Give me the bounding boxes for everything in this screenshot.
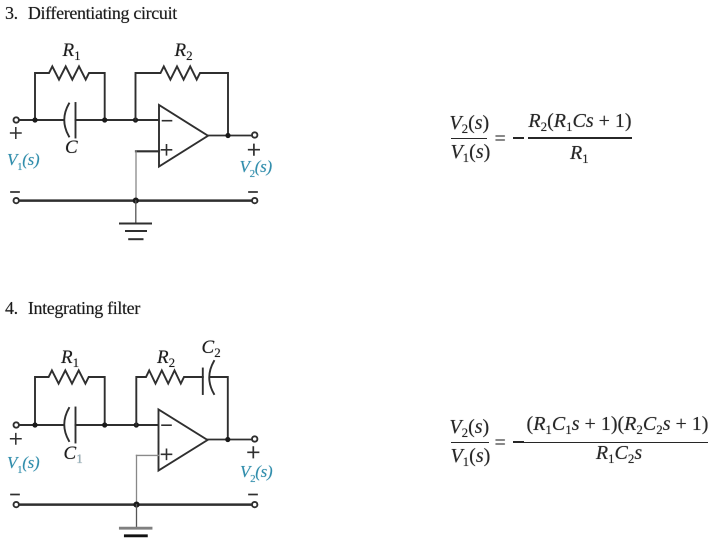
bus2 left terminal <box>14 502 19 507</box>
label C <box>65 138 78 157</box>
wire plus input to ground bus <box>135 151 137 200</box>
label V1(s) input 2 <box>7 454 39 471</box>
node A dot <box>32 117 37 122</box>
equation 2 minus sign <box>513 441 524 443</box>
equation 1 numerator V2(s) <box>449 113 489 133</box>
label V2(s) output <box>240 158 272 175</box>
capacitor C <box>64 104 69 137</box>
wire op-amp2 output <box>208 439 253 441</box>
bus2 right terminal <box>252 502 257 507</box>
equation 1 equals sign <box>495 129 506 149</box>
label R2 filter <box>157 348 175 367</box>
node B2 dot <box>102 422 107 427</box>
wire cap C1 to op-amp <box>76 424 159 426</box>
label C1 <box>64 444 83 463</box>
resistor R2 (filter feedback) <box>136 370 203 425</box>
resistor R1 <box>35 66 105 120</box>
equation 2 numerator right <box>527 414 709 434</box>
op-amp U2 plus mark <box>162 449 172 459</box>
capacitor C1 <box>64 408 69 441</box>
op-amp U2 <box>159 410 208 471</box>
equation 1 denominator V1(s) <box>450 142 490 162</box>
output terminal V2 <box>252 132 257 137</box>
wire plus input to ground bus 2 <box>136 455 138 504</box>
equation 2 numerator V2(s) <box>449 417 489 437</box>
plus sign at output 2 <box>248 447 258 457</box>
capacitor C2 <box>202 369 204 395</box>
resistor R1 (filter) <box>35 370 105 425</box>
node output2 dot <box>225 437 230 442</box>
label V2(s) output 2 <box>240 463 272 480</box>
wire input to node A <box>19 119 64 121</box>
wire C2 to output branch <box>211 377 228 440</box>
node A2 dot <box>32 422 37 427</box>
label R2 <box>175 41 193 60</box>
equation 2 fraction bar left <box>451 442 490 444</box>
equation 2 fraction bar right <box>524 442 708 444</box>
bus2 ground node dot <box>133 502 139 508</box>
plus sign at input 2 <box>11 434 21 444</box>
op-amp U1 <box>159 105 208 167</box>
minus sign bottom right <box>249 191 257 193</box>
ground symbol <box>135 201 137 223</box>
equation 2 equals sign <box>495 433 506 453</box>
wire input to node A2 <box>19 424 64 426</box>
label V1(s) input <box>7 151 39 168</box>
minus sign bottom left <box>11 191 19 193</box>
ground bus wire <box>19 199 252 202</box>
node C dot <box>133 117 138 122</box>
minus sign bottom right 2 <box>249 494 257 496</box>
equation 1 denominator right <box>570 143 589 163</box>
equation 2 denominator V1(s) <box>450 446 490 466</box>
section title 3 <box>5 3 177 24</box>
output terminal V2 (filter) <box>252 436 257 441</box>
op-amp U1 minus mark <box>163 120 172 122</box>
equation 1 fraction bar right <box>528 137 632 139</box>
wire op-amp output <box>208 135 252 137</box>
node B dot <box>102 117 107 122</box>
wire op-amp plus input <box>136 150 159 152</box>
equation 1 numerator right <box>528 111 631 131</box>
bus ground node dot <box>133 198 139 204</box>
section title 4 <box>5 298 140 319</box>
wire op-amp2 plus input <box>137 454 159 456</box>
input terminal V1 <box>14 117 19 122</box>
equation 2 denominator right <box>596 443 642 463</box>
input terminal V1 <box>14 422 19 427</box>
label R1 <box>63 41 81 60</box>
bus right terminal <box>252 198 257 203</box>
ground symbol 2 <box>136 505 138 527</box>
minus sign bottom left 2 <box>11 494 19 496</box>
label C2 <box>202 338 221 357</box>
bus left terminal <box>14 198 19 203</box>
wire cap to op-amp <box>76 119 160 121</box>
node output dot <box>225 133 230 138</box>
op-amp U1 plus mark <box>162 145 172 155</box>
op-amp U2 minus mark <box>162 424 171 426</box>
plus sign at input <box>11 128 21 138</box>
equation 1 minus sign <box>513 137 524 139</box>
node C2n dot <box>134 422 139 427</box>
resistor R2 feedback <box>136 66 229 135</box>
equation 1 fraction bar left <box>451 138 487 140</box>
ground bus 2 wire <box>19 503 252 506</box>
label R1 filter <box>61 348 79 367</box>
plus sign at output <box>249 145 259 155</box>
